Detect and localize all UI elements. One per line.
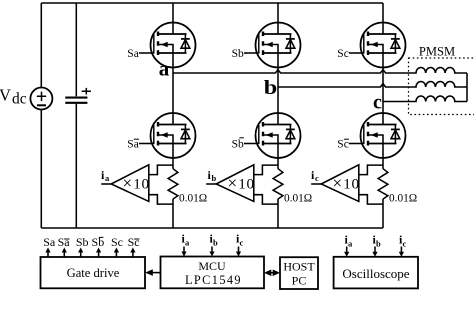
svg-text:Sc: Sc bbox=[128, 235, 140, 249]
svg-text:Sa: Sa bbox=[127, 48, 139, 60]
svg-text:c: c bbox=[240, 238, 244, 248]
svg-text:b: b bbox=[213, 238, 218, 248]
svg-text:Sb: Sb bbox=[232, 139, 244, 151]
svg-text:a: a bbox=[159, 56, 170, 80]
svg-text:HOST: HOST bbox=[283, 260, 315, 274]
svg-text:MCU: MCU bbox=[198, 259, 226, 273]
svg-text:a: a bbox=[105, 173, 110, 183]
svg-text:c: c bbox=[373, 91, 382, 113]
svg-text:b: b bbox=[212, 173, 217, 183]
svg-text:a: a bbox=[185, 238, 190, 248]
svg-text:Sc: Sc bbox=[337, 139, 349, 151]
svg-text:b: b bbox=[376, 239, 381, 249]
svg-text:Sa: Sa bbox=[127, 139, 139, 151]
svg-text:b: b bbox=[264, 77, 278, 99]
svg-text:dc: dc bbox=[12, 91, 27, 108]
svg-text:Gate drive: Gate drive bbox=[67, 266, 120, 280]
svg-text:Sa: Sa bbox=[58, 235, 71, 249]
svg-text:c: c bbox=[403, 239, 407, 249]
svg-text:Sa: Sa bbox=[43, 235, 56, 249]
svg-text:c: c bbox=[315, 173, 319, 183]
svg-text:V: V bbox=[0, 86, 11, 105]
svg-text:Sb: Sb bbox=[232, 48, 244, 60]
svg-text:Oscilloscope: Oscilloscope bbox=[342, 266, 409, 281]
svg-text:a: a bbox=[348, 239, 353, 249]
svg-text:Sc: Sc bbox=[337, 48, 349, 60]
svg-text:Sb: Sb bbox=[76, 235, 89, 249]
svg-text:PMSM: PMSM bbox=[419, 45, 455, 59]
svg-text:LPC1549: LPC1549 bbox=[185, 273, 242, 287]
svg-text:Sc: Sc bbox=[111, 235, 123, 249]
svg-text:PC: PC bbox=[292, 274, 307, 288]
